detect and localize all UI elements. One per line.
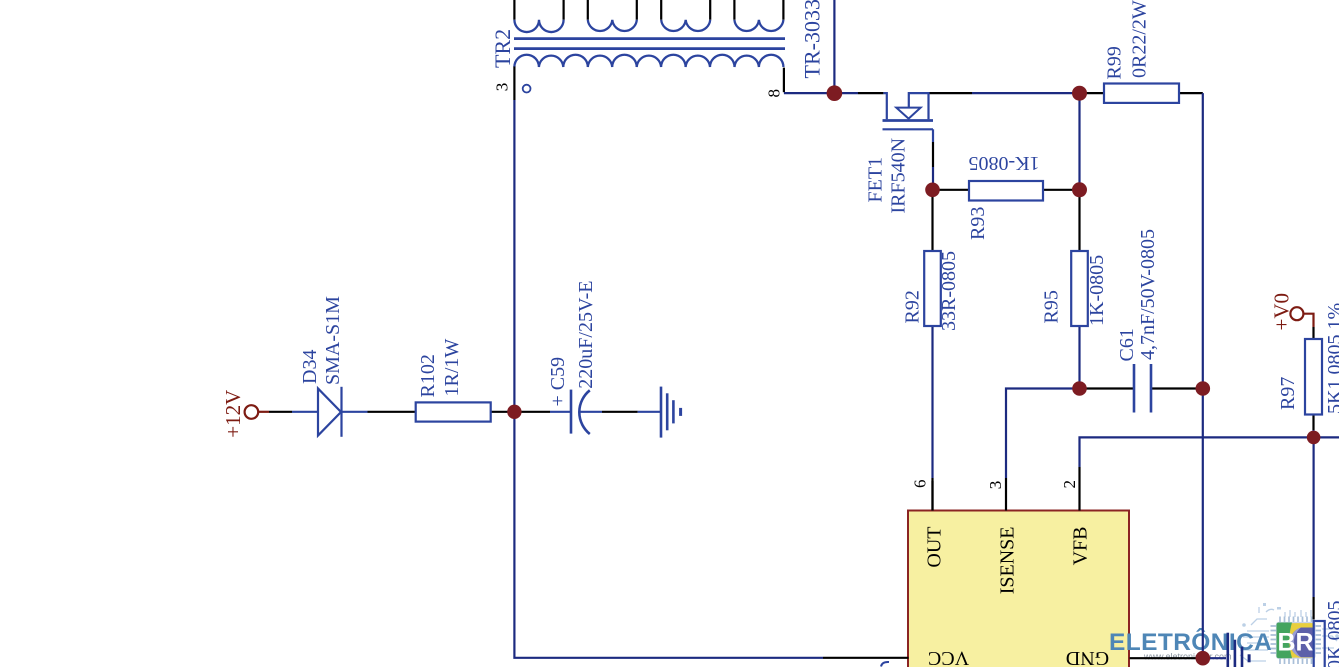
wire vertical above junction A bbox=[833, 0, 835, 93]
node A (TR2 pin8) bbox=[827, 85, 843, 101]
node D (R95/C61/pin3) bbox=[1072, 381, 1087, 396]
svg-text:SMA-S1M: SMA-S1M bbox=[322, 296, 344, 385]
svg-text:R102: R102 bbox=[417, 354, 439, 397]
wire TR2 pin3 stub bbox=[513, 67, 515, 101]
svg-text:R97: R97 bbox=[1277, 377, 1299, 410]
wire gate junction down to R92 bbox=[931, 190, 933, 251]
wire junction F down to R96 bbox=[1312, 437, 1314, 597]
transformer TR2 secondary windings bbox=[514, 20, 783, 32]
resistor R96 bbox=[1314, 621, 1325, 667]
wire junction D to IC pin 3 bbox=[1006, 389, 1080, 479]
IC pin stub 6 bbox=[931, 481, 933, 511]
watermark logo ELETRONICA BR bbox=[1109, 603, 1339, 664]
svg-text:10K 0805: 10K 0805 bbox=[1324, 601, 1339, 667]
wire R92 to IC pin 6 bbox=[931, 326, 933, 478]
terminal +V0 bbox=[1290, 307, 1303, 320]
svg-text:5K1 0805 1%: 5K1 0805 1% bbox=[1324, 303, 1339, 414]
svg-text:2: 2 bbox=[1060, 480, 1079, 489]
capacitor C61 bbox=[1134, 364, 1151, 413]
wire diode to R102 bbox=[342, 411, 368, 413]
wire C61 to junction E bbox=[1151, 387, 1203, 389]
resistor R92 bbox=[924, 251, 941, 326]
wire FET gate lead bbox=[932, 142, 934, 167]
wire VFB net (pin 2 up and right to R97/R96) bbox=[1080, 437, 1339, 467]
svg-text:220uF/25V-E: 220uF/25V-E bbox=[575, 281, 597, 389]
svg-text:FET1: FET1 bbox=[865, 157, 887, 203]
capacitor C59 bbox=[571, 390, 590, 434]
svg-text:IRF540N: IRF540N bbox=[888, 138, 910, 214]
svg-text:1K-0805: 1K-0805 bbox=[968, 152, 1039, 174]
svg-text:R93: R93 bbox=[967, 207, 989, 240]
svg-text:GND: GND bbox=[1066, 647, 1109, 667]
wire junction C down to R95 bbox=[1078, 190, 1080, 251]
partial label below edge bbox=[881, 662, 889, 667]
wire gate junction to R93 bbox=[933, 189, 970, 191]
wire TR2 pin8 stub bbox=[783, 68, 785, 93]
op-amp U1 (PWM controller IC body) bbox=[908, 511, 1129, 667]
svg-text:0R22/2W: 0R22/2W bbox=[1129, 0, 1151, 78]
resistor R97 bbox=[1305, 339, 1322, 415]
svg-text:6: 6 bbox=[911, 480, 930, 489]
wire rail junction A to FET drain bbox=[834, 92, 858, 94]
wire R95 down to junction D bbox=[1078, 326, 1080, 389]
wire junction B to R99 bbox=[1080, 92, 1105, 94]
node B (FET source rail) bbox=[1072, 86, 1087, 101]
svg-text:VCC: VCC bbox=[928, 647, 969, 667]
wire R97 bottom to junction F bbox=[1312, 415, 1314, 431]
svg-text:1R/1W: 1R/1W bbox=[441, 339, 463, 397]
resistor R102 bbox=[416, 402, 491, 421]
svg-text:+12V: +12V bbox=[221, 390, 245, 438]
svg-text:3: 3 bbox=[493, 83, 512, 92]
wire C59 to ground bbox=[580, 411, 602, 413]
svg-text:R92: R92 bbox=[902, 290, 924, 323]
resistor R93 bbox=[969, 181, 1043, 201]
transformer TR2 core bbox=[514, 39, 785, 49]
diode D34 bbox=[318, 387, 342, 437]
svg-text:D34: D34 bbox=[299, 350, 321, 384]
wire R99 right and ground drop line bbox=[1179, 92, 1203, 94]
svg-text:1K-0805: 1K-0805 bbox=[1086, 255, 1108, 326]
svg-text:+ C59: + C59 bbox=[547, 357, 569, 407]
svg-text:R99: R99 bbox=[1104, 46, 1126, 79]
wire +V0 stub to R97 bbox=[1304, 314, 1314, 327]
svg-text:VFB: VFB bbox=[1070, 527, 1092, 566]
svg-text:BR: BR bbox=[1278, 629, 1314, 657]
svg-text:4,7nF/50V-0805: 4,7nF/50V-0805 bbox=[1137, 229, 1159, 360]
svg-text:33R-0805: 33R-0805 bbox=[938, 251, 960, 331]
wire left vertical and bottom run to VCC bbox=[514, 100, 823, 658]
svg-text:TR2: TR2 bbox=[490, 29, 515, 68]
transformer TR2 secondary winding pins bbox=[514, 0, 783, 20]
svg-text:www.eletronicabr.com: www.eletronicabr.com bbox=[1143, 652, 1232, 662]
wire R102 to junction H and C59 bbox=[491, 411, 550, 413]
resistor R99 bbox=[1104, 84, 1179, 103]
wire GND pin to junction G and ground bbox=[1130, 657, 1197, 659]
polarity dot TR2 pin 3 bbox=[523, 85, 531, 93]
terminal +12V bbox=[245, 405, 259, 419]
node gate (R92/R93) bbox=[925, 183, 940, 198]
ground (GND pin) bbox=[1228, 633, 1249, 667]
ground (C59) bbox=[661, 387, 681, 438]
svg-text:ISENSE: ISENSE bbox=[997, 527, 1019, 595]
svg-text:OUT: OUT bbox=[924, 527, 946, 568]
node E (C61/gnd line) bbox=[1196, 381, 1211, 396]
svg-text:C61: C61 bbox=[1116, 328, 1138, 361]
node H (R102/C59) bbox=[507, 405, 521, 419]
wire junction D to C61 bbox=[1080, 387, 1135, 389]
svg-text:+V0: +V0 bbox=[1270, 293, 1294, 331]
svg-text:R95: R95 bbox=[1041, 290, 1063, 323]
resistor R95 bbox=[1071, 251, 1088, 326]
wire FET source to junction B bbox=[929, 92, 973, 94]
wire junction B down to junction C bbox=[1078, 93, 1080, 190]
svg-text:TR-3033: TR-3033 bbox=[800, 0, 825, 79]
transformer TR2 primary winding bbox=[514, 55, 783, 67]
svg-text:8: 8 bbox=[765, 89, 784, 98]
wire pin8 to junction bbox=[784, 92, 830, 94]
node G (GND pin) bbox=[1196, 651, 1211, 666]
svg-text:3: 3 bbox=[986, 481, 1005, 490]
wire +12V stub bbox=[258, 411, 269, 413]
node F (R97/R96/VFB) bbox=[1307, 431, 1321, 445]
wire VCC pin stub bbox=[823, 657, 909, 659]
transistor FET1 (MOSFET) bbox=[883, 93, 934, 142]
wire R93 to junction C bbox=[1043, 189, 1080, 191]
node C (R93/R95) bbox=[1072, 182, 1087, 197]
